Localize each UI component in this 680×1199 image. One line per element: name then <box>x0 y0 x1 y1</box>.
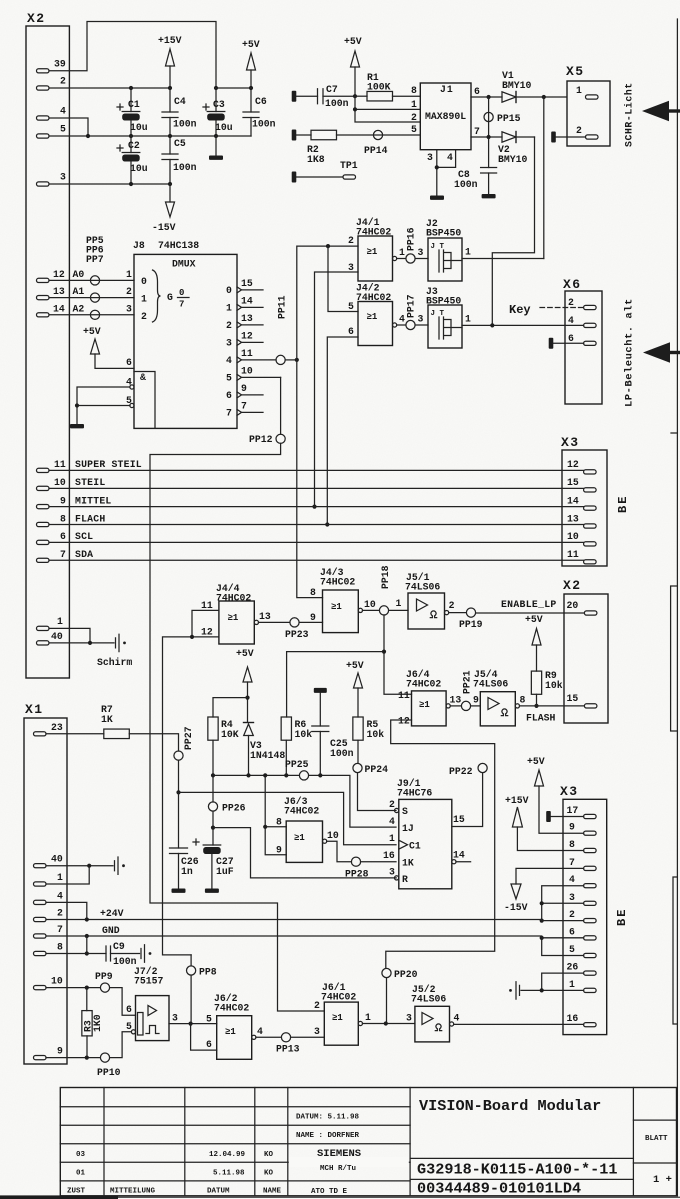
svg-text:2: 2 <box>226 320 232 331</box>
wire J3 output to X6 pin4 <box>462 314 584 328</box>
test point PP6 <box>86 245 104 303</box>
svg-text:S: S <box>402 806 408 817</box>
svg-text:3: 3 <box>418 247 424 258</box>
svg-text:03: 03 <box>76 1151 86 1159</box>
test point PP24 <box>353 763 396 810</box>
svg-text:10k: 10k <box>295 729 313 740</box>
resistor R6 10k <box>281 717 312 775</box>
svg-text:PP8: PP8 <box>199 967 217 978</box>
svg-text:MCH R/Tu: MCH R/Tu <box>320 1165 356 1173</box>
svg-text:1K8: 1K8 <box>307 154 325 165</box>
test point PP12 <box>249 434 285 445</box>
svg-text:15: 15 <box>567 693 579 704</box>
wire X2 pins 1,40 tie <box>49 628 114 645</box>
svg-text:39: 39 <box>54 58 66 69</box>
svg-text:74HC02: 74HC02 <box>320 577 355 588</box>
svg-text:40: 40 <box>51 854 63 865</box>
test point PP5 <box>86 235 104 285</box>
label SCHR-Licht <box>624 82 635 147</box>
transistor J3 BSP450 <box>426 286 462 348</box>
svg-text:3: 3 <box>126 304 132 315</box>
svg-text:74HC02: 74HC02 <box>321 992 356 1003</box>
power +5V symbol (R4/V3) <box>236 648 254 723</box>
DMUX output 0 (pin 15) <box>226 278 263 296</box>
svg-text:14: 14 <box>241 295 253 306</box>
svg-text:SCHR-Licht: SCHR-Licht <box>624 82 635 147</box>
svg-text:DATUM: 5.11.98: DATUM: 5.11.98 <box>296 1114 360 1122</box>
test point PP25 <box>285 759 309 780</box>
wire J6/2 pin6 loop <box>191 1024 217 1051</box>
svg-text:PP17: PP17 <box>406 294 417 318</box>
svg-text:PP15: PP15 <box>497 113 521 124</box>
power +5V symbol (top) <box>242 39 260 88</box>
svg-text:2: 2 <box>60 76 66 87</box>
svg-text:PP9: PP9 <box>95 971 113 982</box>
power +5V symbol (J1) <box>344 36 362 98</box>
wire GND row <box>46 925 584 956</box>
DMUX output 1 (pin 14) <box>226 295 263 313</box>
svg-text:6: 6 <box>569 926 575 937</box>
X3 pin 12 <box>567 459 596 474</box>
svg-text:DMUX: DMUX <box>172 259 196 270</box>
svg-text:2: 2 <box>314 1000 320 1011</box>
X2 pin 7 (SDA) <box>37 549 94 562</box>
wire X1 pin10 row <box>46 986 100 990</box>
X3 pin 26 <box>567 962 597 976</box>
svg-text:PP20: PP20 <box>394 969 418 980</box>
wire J6/1 output junction <box>363 1021 415 1025</box>
transistor J2 BSP450 <box>426 218 462 281</box>
label FLASH <box>526 713 556 724</box>
svg-text:3: 3 <box>389 867 395 878</box>
power +5V symbol (DMUX enable) <box>83 326 134 368</box>
wire +24V row <box>46 902 584 921</box>
wire +5V rail segment <box>216 87 251 89</box>
X3 pin 15 <box>567 477 596 492</box>
DMUX enable AND section <box>134 372 155 429</box>
svg-text:1N4148: 1N4148 <box>250 750 285 761</box>
svg-text:11: 11 <box>398 690 410 701</box>
svg-text:6: 6 <box>60 531 66 542</box>
svg-text:PP16: PP16 <box>406 227 417 251</box>
buffer J5/1 74LS06 <box>405 572 449 629</box>
svg-text:C2: C2 <box>128 140 140 151</box>
wire SCL row <box>49 541 584 543</box>
J4/3 pin labels <box>310 587 376 623</box>
svg-text:5: 5 <box>126 1021 132 1032</box>
svg-text:X2: X2 <box>563 578 582 593</box>
svg-text:13: 13 <box>53 286 65 297</box>
svg-text:5: 5 <box>569 944 575 955</box>
connector X5 body <box>566 64 610 146</box>
gate J4/2 74HC02 <box>356 283 397 346</box>
J6/4 pin labels <box>398 690 461 727</box>
svg-text:11: 11 <box>567 549 579 560</box>
X2 pin 39 <box>37 58 66 73</box>
J1 pin labels <box>411 85 480 163</box>
label Key with dashed wire <box>509 303 584 317</box>
svg-text:5: 5 <box>348 301 354 312</box>
svg-text:2: 2 <box>411 112 417 123</box>
J9/1 pin R <box>389 867 408 886</box>
svg-text:6: 6 <box>206 1039 212 1050</box>
svg-text:≥1: ≥1 <box>225 1027 236 1037</box>
test point PP23 <box>259 618 323 640</box>
svg-text:PP19: PP19 <box>459 619 483 630</box>
X2 pin 4 <box>37 106 67 121</box>
svg-text:15: 15 <box>567 477 579 488</box>
svg-text:2: 2 <box>576 125 582 136</box>
svg-text:PP18: PP18 <box>380 565 391 589</box>
X1 pin 9 <box>34 1046 64 1060</box>
svg-text:4: 4 <box>226 355 232 366</box>
svg-text:100n: 100n <box>252 119 276 130</box>
power +5V symbol (R9) <box>525 614 543 671</box>
svg-text:C7: C7 <box>326 84 338 95</box>
J9/1 pin S <box>389 799 408 817</box>
svg-text:PP23: PP23 <box>285 629 309 640</box>
svg-text:10: 10 <box>54 477 66 488</box>
svg-text:0: 0 <box>141 276 147 287</box>
wire J6/3 output to J9/1 1K via PP28 <box>327 841 352 862</box>
gate J4/4 74HC02 <box>216 583 259 644</box>
svg-text:≥1: ≥1 <box>294 833 305 843</box>
svg-text:11: 11 <box>201 600 213 611</box>
svg-text:74HC02: 74HC02 <box>216 593 251 604</box>
J6/3 pin labels <box>276 817 339 856</box>
svg-text:GND: GND <box>102 925 120 936</box>
svg-text:A0: A0 <box>73 269 85 280</box>
X2-right pin 15 <box>567 693 597 708</box>
J9/1 pin C1 clock <box>389 833 421 852</box>
wire PP27 row B to J9/1 clock <box>179 792 397 844</box>
svg-text:C9: C9 <box>113 941 125 952</box>
svg-text:9: 9 <box>276 845 282 856</box>
X3 pin 5 <box>569 944 596 958</box>
svg-text:100n: 100n <box>454 179 478 190</box>
svg-text:6: 6 <box>226 390 232 401</box>
svg-text:1: 1 <box>141 294 147 305</box>
svg-text:74LS06: 74LS06 <box>411 994 446 1005</box>
svg-text:J T: J T <box>431 243 445 251</box>
test point PP9 <box>95 971 136 1015</box>
resistor R7 1K <box>46 704 179 751</box>
svg-text:10u: 10u <box>130 122 148 133</box>
node junctions on +5V rail <box>214 86 253 90</box>
wire PP18 branch to J6/4 pin11 and R6 <box>287 615 412 717</box>
wire X2 pin4 elbow <box>49 118 88 136</box>
svg-text:MITTEL: MITTEL <box>75 495 111 506</box>
svg-text:PP13: PP13 <box>276 1044 300 1055</box>
X1 pin 7 <box>34 924 64 938</box>
title block table <box>60 1088 676 1196</box>
X2 pin 40 <box>37 631 63 645</box>
svg-text:12: 12 <box>398 716 410 727</box>
svg-text:+15V: +15V <box>158 35 182 46</box>
svg-text:74LS06: 74LS06 <box>405 582 440 593</box>
svg-text:PP25: PP25 <box>285 759 309 770</box>
svg-text:1: 1 <box>399 247 405 258</box>
svg-text:0: 0 <box>179 288 184 298</box>
svg-text:MAX890L: MAX890L <box>425 111 466 122</box>
svg-text:11: 11 <box>241 348 253 359</box>
svg-text:R: R <box>402 874 408 885</box>
svg-text:6: 6 <box>126 1004 132 1015</box>
DMUX output 2 (pin 13) <box>226 313 263 331</box>
svg-text:15: 15 <box>241 278 253 289</box>
svg-text:5: 5 <box>206 1014 212 1025</box>
svg-text:6: 6 <box>348 326 354 337</box>
svg-text:+5V: +5V <box>346 660 364 671</box>
title VISION-Board Modular <box>419 1097 601 1115</box>
connector X2 (right) body <box>563 578 608 723</box>
svg-text:7: 7 <box>179 300 184 310</box>
svg-text:8: 8 <box>310 587 316 598</box>
title document number <box>417 1180 581 1198</box>
X3 pin 16 <box>567 1013 597 1027</box>
svg-text:3: 3 <box>427 152 433 163</box>
wire J7/2 output junction <box>169 1022 217 1026</box>
wire PP12 net down left vertical <box>150 443 324 1011</box>
svg-text:≥1: ≥1 <box>367 312 378 322</box>
svg-text:C3: C3 <box>213 99 225 110</box>
wire J2 output to V1 node <box>462 247 544 259</box>
gate J4/3 74HC02 <box>320 567 363 633</box>
svg-text:PP21: PP21 <box>462 670 473 694</box>
power +15V symbol (X3) <box>505 795 584 851</box>
svg-text:100n: 100n <box>330 748 354 759</box>
node junctions on +15V rail <box>129 86 172 90</box>
svg-text:FLASH: FLASH <box>526 713 556 724</box>
svg-text:BLATT: BLATT <box>645 1135 668 1143</box>
svg-text:SDA: SDA <box>75 549 93 560</box>
capacitor C27 1uF <box>193 839 234 893</box>
svg-text:LP-Beleucht. alt: LP-Beleucht. alt <box>624 298 636 407</box>
buffer J5/4 74LS06 <box>473 669 520 726</box>
label ENABLE_LP <box>501 599 557 610</box>
svg-text:10u: 10u <box>215 122 233 133</box>
DMUX enable pins 4,5 to ground <box>70 357 134 428</box>
svg-text:-15V: -15V <box>504 902 528 913</box>
svg-text:3: 3 <box>406 1013 412 1024</box>
svg-text:1: 1 <box>389 833 395 844</box>
svg-text:6: 6 <box>568 333 574 344</box>
power +5V symbol (R5) <box>346 660 364 717</box>
wire FLASH row to X2 pin15 <box>520 695 585 706</box>
power +15V symbol <box>158 35 182 88</box>
svg-text:1: 1 <box>569 979 575 990</box>
IC J8 74HC138 DMUX body <box>133 240 237 428</box>
J6/2 pin labels <box>206 1014 263 1051</box>
X1 pin 2 <box>34 908 64 922</box>
J9/1 pin 1J <box>389 816 414 834</box>
svg-text:+5V: +5V <box>527 756 545 767</box>
svg-text:8: 8 <box>411 85 417 96</box>
svg-text:100n: 100n <box>173 162 197 173</box>
test point PP15 <box>484 97 521 137</box>
chassis symbol Schirm <box>97 634 132 668</box>
svg-text:74HC02: 74HC02 <box>406 679 441 690</box>
capacitor C7 100n <box>296 84 355 109</box>
svg-text:9: 9 <box>57 1046 63 1057</box>
chassis symbol at X3 pin1 <box>509 982 519 999</box>
svg-text:16: 16 <box>383 850 395 861</box>
svg-text:7: 7 <box>226 407 232 418</box>
gate J4/1 74HC02 <box>356 217 397 281</box>
svg-text:2: 2 <box>569 909 575 920</box>
svg-text:100n: 100n <box>325 98 349 109</box>
svg-text:+5V: +5V <box>344 36 362 47</box>
title block revision rows <box>67 1151 282 1196</box>
test point PP19 <box>449 600 585 630</box>
svg-text:4: 4 <box>257 1026 263 1037</box>
svg-text:7: 7 <box>57 924 63 935</box>
X2 pin 5 <box>37 124 67 139</box>
flip-flop J9/1 74HC76 body <box>397 778 452 889</box>
svg-text:40: 40 <box>51 631 63 642</box>
X1 pin 23 <box>34 722 63 736</box>
svg-text:X3: X3 <box>560 784 579 799</box>
svg-text:+15V: +15V <box>505 795 529 806</box>
svg-text:2: 2 <box>348 235 354 246</box>
svg-text:6: 6 <box>126 357 132 368</box>
X1 pin 40 <box>34 854 63 868</box>
wire J4/4 inputs tie <box>163 610 219 955</box>
svg-text:2: 2 <box>568 297 574 308</box>
frame arrow marker top (SCHR-Licht) <box>642 101 680 121</box>
wire +5V to J1 pins 1,2 <box>353 96 420 122</box>
svg-text:14: 14 <box>453 850 465 861</box>
wire X2 pin39 to +5V rail <box>49 22 216 89</box>
svg-text:0: 0 <box>226 285 232 296</box>
svg-text:4: 4 <box>60 106 66 117</box>
J9/1 pin 15 <box>452 773 483 827</box>
wire X3 pins 26,1 tie <box>521 973 584 992</box>
J4/4 pin labels <box>201 600 271 638</box>
svg-text:7: 7 <box>474 126 480 137</box>
svg-text:BE: BE <box>616 495 630 513</box>
svg-text:1K0: 1K0 <box>92 1014 103 1032</box>
DMUX output 6 (pin 9) <box>226 383 263 401</box>
terminal bar at X5 pin2 <box>551 132 585 143</box>
wire FLACH row <box>49 524 584 526</box>
power -15V symbol <box>152 184 176 233</box>
svg-text:DATUM: DATUM <box>207 1188 230 1196</box>
svg-text:5: 5 <box>226 372 232 383</box>
svg-text:1: 1 <box>465 247 471 258</box>
svg-text:NAME: NAME <box>263 1188 282 1196</box>
svg-text:5: 5 <box>60 124 66 135</box>
capacitor C6 100n <box>243 88 276 136</box>
wire X3 pins 4,3 to +24V row <box>540 886 584 923</box>
svg-text:+5V: +5V <box>236 648 254 659</box>
svg-text:STEIL: STEIL <box>75 477 105 488</box>
title BLATT cell <box>645 1135 672 1186</box>
wire MITTEL to J4/1 pin3 <box>312 272 358 509</box>
X3 pin 13 <box>567 513 596 528</box>
svg-text:8: 8 <box>57 942 63 953</box>
resistor R1 100K <box>367 72 391 93</box>
gate J6/1 74HC02 <box>321 982 363 1045</box>
label BE (upper) <box>616 495 630 513</box>
svg-text:75157: 75157 <box>134 976 164 987</box>
svg-text:2: 2 <box>126 286 132 297</box>
svg-text:1: 1 <box>57 616 63 627</box>
X3 pin 10 <box>567 531 596 546</box>
X2-right pin 20 <box>567 600 597 615</box>
svg-text:4: 4 <box>568 315 574 326</box>
svg-text:3: 3 <box>314 1026 320 1037</box>
wire J4/1 pin2 branch to J4/2 pin5 <box>328 246 358 311</box>
test point TP1 <box>292 160 358 183</box>
capacitor C5 100n <box>162 136 197 184</box>
test point PP11 <box>276 295 299 364</box>
svg-text:1J: 1J <box>402 823 414 834</box>
svg-text:G32918-K0115-A100-*-11: G32918-K0115-A100-*-11 <box>417 1161 618 1179</box>
J1 pins 3,4 to ground <box>430 150 456 200</box>
svg-text:10: 10 <box>327 830 339 841</box>
X2 pin 1 <box>37 616 64 631</box>
X3 pin 11 <box>567 549 596 564</box>
X1 pin 4 <box>34 890 64 904</box>
svg-text:7: 7 <box>241 400 247 411</box>
svg-text:10: 10 <box>241 365 253 376</box>
resistor R9 10k <box>531 670 562 708</box>
test point PP16 <box>397 227 428 263</box>
svg-text:NAME : DORFNER: NAME : DORFNER <box>296 1132 360 1140</box>
label LP-Beleucht. alt <box>624 298 636 407</box>
capacitor C3 10u <box>203 88 233 136</box>
wire X2 pin5 rail <box>49 134 251 138</box>
wire SDA row <box>49 559 584 561</box>
svg-text:1: 1 <box>226 302 232 313</box>
svg-text:12: 12 <box>201 627 213 638</box>
svg-text:17: 17 <box>567 805 579 816</box>
resistor R3 1K0 <box>82 988 103 1058</box>
svg-text:74LS06: 74LS06 <box>473 679 508 690</box>
svg-text:74HC138: 74HC138 <box>158 240 199 251</box>
svg-text:9: 9 <box>473 695 479 706</box>
svg-text:10k: 10k <box>367 729 385 740</box>
svg-text:13: 13 <box>259 611 271 622</box>
node junctions on pin3 rail <box>129 182 172 186</box>
frame right border <box>676 19 678 1196</box>
svg-text:3: 3 <box>226 337 232 348</box>
svg-text:BMY10: BMY10 <box>498 154 528 165</box>
X2 pin 14 (A2) <box>37 303 85 317</box>
wire V2 node down to J3 output <box>492 137 534 325</box>
svg-text:12: 12 <box>53 269 65 280</box>
svg-text:G: G <box>167 292 173 303</box>
svg-text:9: 9 <box>241 383 247 394</box>
svg-text:7: 7 <box>60 549 66 560</box>
svg-text:≥1: ≥1 <box>331 602 342 612</box>
svg-text:1K: 1K <box>101 714 113 725</box>
wire X2 pin2 to +15V rail <box>49 87 171 89</box>
diode V1 BMY10 <box>502 70 567 103</box>
svg-text:A1: A1 <box>73 286 85 297</box>
wire SUPER STEIL row <box>49 469 584 471</box>
DMUX output 5 (pin 10) <box>226 365 281 383</box>
label BE (lower) <box>615 908 629 926</box>
svg-text:2: 2 <box>141 311 147 322</box>
svg-text:4: 4 <box>57 890 63 901</box>
svg-text:1: 1 <box>465 314 471 325</box>
J6/1 pin labels <box>314 1000 371 1037</box>
svg-text:-15V: -15V <box>152 222 176 233</box>
svg-text:X5: X5 <box>566 64 585 79</box>
wire X1 pin9 row <box>46 1056 100 1060</box>
